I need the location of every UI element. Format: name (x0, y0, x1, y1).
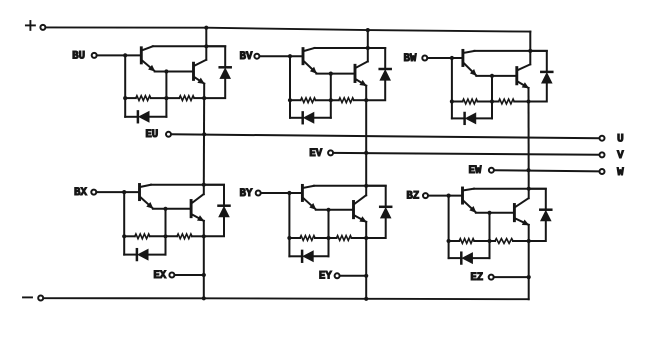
wire collector bus of cell W (474, 50, 546, 52)
junction node base BV (288, 54, 292, 58)
diode D2 freewheel (cell Y) bottom lead (366, 218, 386, 238)
wire emitter sense lead EZ (494, 276, 529, 278)
terminal circle EY (335, 273, 340, 278)
wire emitter-base branch vertical (cell X) (165, 209, 167, 255)
svg-text:BZ: BZ (406, 191, 419, 203)
diode D2 freewheel (cell U) cathode bar (220, 66, 231, 69)
wire base branch vertical (cell W) (451, 58, 453, 118)
wire collector bus of cell U (153, 45, 225, 47)
diode D1 reverse base-emitter (cell X) cathode bar (136, 249, 139, 260)
wire phase output line V (333, 153, 599, 155)
wire resistor row right lead (cell X) (192, 235, 204, 237)
junction node emitter sense (cell V) (364, 151, 368, 155)
transistor Q2 output (cell V) base bar (354, 65, 357, 81)
junction node collector (cell U) (204, 44, 208, 48)
junction node base BW (450, 56, 454, 60)
transistor Q1 driver (cell Z) base bar (461, 188, 464, 203)
transistor Q2 output (cell Z) emitter (515, 219, 528, 225)
wire base branch vertical (cell Y) (288, 193, 290, 256)
terminal circle EV (328, 150, 333, 155)
wire positive collector rail (P bus) (46, 27, 530, 31)
junction node P rail (cell V) (366, 28, 370, 32)
diode D1 reverse base-emitter (cell Z) lead left (449, 257, 462, 259)
wire Darlington emitter-base link (cell X) (153, 208, 190, 210)
junction node resistor row left (cell X) (122, 234, 126, 238)
wire emitter vertical to N rail (cell Y) (365, 222, 367, 299)
wire emitter sense lead EY (340, 275, 367, 277)
diode D1 reverse base-emitter (cell V) cathode bar (301, 112, 304, 123)
wire base lead BV (260, 55, 303, 57)
terminal circle EZ (489, 275, 494, 280)
junction node resistor row middle (cell W) (490, 99, 494, 103)
wire base lead BU (97, 54, 141, 56)
svg-text:U: U (617, 134, 624, 146)
junction node collector (cell Z) (527, 187, 531, 191)
terminal circle EX (169, 273, 174, 278)
transistor Q2 output (cell V) emitter (356, 79, 366, 85)
svg-text:EU: EU (145, 129, 158, 141)
diode D1 reverse base-emitter (cell V) anode triangle (303, 112, 314, 123)
wire resistor row right lead (cell V) (354, 99, 366, 101)
wire base branch vertical (cell X) (123, 192, 125, 255)
transistor Q1 driver (cell V) collector (304, 48, 315, 51)
wire collector vertical stub (cell X) (203, 185, 205, 195)
junction node collector (cell X) (202, 183, 206, 187)
transistor Q2 output (cell Y) emitter (355, 216, 367, 222)
terminal circle EW (489, 168, 494, 173)
svg-text:EW: EW (469, 165, 482, 177)
junction node base BY (287, 191, 291, 195)
wire Darlington emitter-base link (cell Y) (316, 209, 353, 211)
terminal circle BW (422, 56, 427, 61)
junction node emitter-base (cell Z) (487, 211, 491, 215)
diode D2 freewheel (cell Z) cathode bar (540, 208, 551, 211)
svg-text:EV: EV (309, 148, 322, 160)
junction node emitter-base (cell V) (329, 72, 333, 76)
junction node emitter sense (cell Y) (364, 274, 368, 278)
junction node resistor row middle (cell Y) (326, 236, 330, 240)
transistor Q2 output (cell X) base bar (190, 201, 193, 217)
transistor Q1 driver (cell Z) collector (464, 189, 475, 191)
junction node N rail (cell Y) (364, 297, 368, 301)
terminal circle BV (254, 54, 259, 59)
wire resistor row right lead (cell U) (194, 97, 204, 99)
resistor R1 base-emitter (cell X) (135, 234, 150, 239)
terminal circle V (600, 152, 605, 157)
wire Darlington emitter-base link (cell U) (155, 71, 193, 73)
svg-text:BU: BU (72, 50, 85, 62)
junction node collector (cell W) (528, 49, 532, 53)
diode D1 reverse base-emitter (cell Y) cathode bar (301, 251, 304, 262)
transistor Q1 driver (cell U) base bar (140, 48, 143, 63)
diode D1 reverse base-emitter (cell W) anode triangle (465, 113, 476, 124)
resistor R1 base-emitter (cell V) lead left (290, 99, 301, 101)
diode D2 freewheel (cell X) anode triangle (219, 206, 230, 217)
P terminal (+) circle (40, 25, 45, 30)
junction node emitter-base (cell U) (164, 69, 168, 73)
svg-text:EX: EX (153, 270, 166, 282)
diode D1 reverse base-emitter (cell U) lead right (149, 116, 166, 118)
wire phase output line W (494, 170, 599, 171)
transistor Q2 output (cell X) emitter (192, 215, 204, 221)
wire collector bus of cell X (151, 184, 224, 186)
resistor R1 base-emitter (cell Z) (459, 239, 474, 244)
svg-text:BY: BY (240, 188, 253, 200)
wire Darlington emitter-base link (cell W) (476, 75, 516, 77)
resistor R1 base-emitter (cell X) lead left (124, 235, 135, 237)
resistor R1 base-emitter (cell U) (136, 96, 151, 101)
diode D1 reverse base-emitter (cell W) cathode bar (463, 113, 466, 124)
N terminal (-) circle (38, 296, 43, 301)
wire phase node vertical (cell W emitter to cell Z collector) (528, 88, 530, 189)
wire emitter-base branch vertical (cell Y) (328, 210, 330, 256)
wire resistor row right lead (cell W) (514, 101, 528, 103)
wire phase output line U (171, 134, 599, 138)
wire emitter vertical to N rail (cell Z) (528, 225, 530, 299)
wire base lead BW (427, 57, 462, 59)
transistor Q1 driver (cell W) collector (464, 51, 475, 53)
resistor R1 base-emitter (cell Z) lead left (449, 240, 460, 242)
transistor Q2 output (cell U) base bar (192, 63, 195, 79)
junction node resistor row middle (cell U) (164, 96, 168, 100)
wire collector vertical stub (cell Z) (528, 189, 530, 199)
resistor R2 base-emitter (cell W) (499, 99, 515, 104)
wire base branch vertical (cell U) (124, 55, 126, 116)
diode D2 freewheel (cell U) bottom lead (204, 79, 225, 99)
diode D1 reverse base-emitter (cell Z) anode triangle (462, 253, 473, 264)
junction node emitter sense (cell Z) (527, 275, 531, 279)
transistor Q2 output (cell V) collector (356, 62, 368, 68)
junction node emitter (cell W) (526, 99, 530, 103)
wire collector vertical from P rail (cell W) (529, 32, 531, 65)
resistor R2 base-emitter (cell Y) (337, 236, 352, 241)
diode D1 reverse base-emitter (cell U) lead left (125, 116, 138, 118)
resistor R1 base-emitter (cell Y) lead left (289, 237, 300, 239)
diode D2 freewheel (cell Y) top lead (366, 186, 386, 207)
transistor Q2 output (cell U) collector (195, 60, 207, 66)
diode D2 freewheel (cell X) top lead (204, 185, 224, 206)
wire Darlington emitter-base link (cell V) (316, 73, 354, 75)
diode D2 freewheel (cell V) anode triangle (380, 70, 391, 81)
junction node emitter (cell X) (202, 234, 206, 238)
junction node resistor row left (cell U) (123, 96, 127, 100)
diode D2 freewheel (cell Z) anode triangle (541, 210, 552, 221)
transistor Q1 driver (cell W) emitter (464, 63, 476, 75)
diode D1 reverse base-emitter (cell W) lead left (452, 117, 465, 119)
wire collector vertical from P rail (cell V) (367, 30, 369, 61)
wire resistor row middle (cell V) (316, 99, 339, 101)
transistor Q2 output (cell U) emitter (195, 77, 205, 83)
wire emitter sense lead EX (175, 274, 204, 276)
junction node emitter (cell U) (202, 96, 206, 100)
P terminal (+) label (26, 21, 35, 30)
transistor Q1 driver (cell W) base bar (461, 50, 464, 65)
wire emitter-base branch vertical (cell W) (491, 76, 493, 119)
wire resistor row middle (cell Z) (474, 240, 495, 242)
diode D2 freewheel (cell V) top lead (368, 48, 385, 69)
transistor Q2 output (cell W) base bar (515, 68, 518, 84)
terminal circle BX (91, 190, 96, 195)
diode D1 reverse base-emitter (cell X) lead left (124, 254, 137, 256)
diode D2 freewheel (cell V) bottom lead (366, 80, 385, 100)
junction node emitter sense (cell X) (202, 273, 206, 277)
junction node resistor row left (cell W) (450, 99, 454, 103)
junction node base BZ (447, 194, 451, 198)
diode D2 freewheel (cell U) top lead (206, 46, 225, 67)
resistor R2 base-emitter (cell V) (339, 98, 354, 103)
diode D1 reverse base-emitter (cell X) lead right (148, 254, 165, 256)
wire base lead BX (96, 191, 138, 193)
svg-text:V: V (617, 150, 624, 162)
transistor Q1 driver (cell Y) collector (303, 186, 314, 188)
transistor Q1 driver (cell Y) base bar (301, 185, 304, 200)
junction node collector (cell Y) (364, 184, 368, 188)
wire base lead BY (261, 192, 302, 194)
junction node P rail (cell U) (204, 26, 208, 30)
wire resistor row right lead (cell Y) (352, 237, 367, 239)
diode D1 reverse base-emitter (cell V) lead left (290, 117, 303, 119)
transistor Q2 output (cell Y) collector (355, 195, 367, 204)
wire emitter vertical to N rail (cell X) (203, 221, 205, 298)
wire negative emitter rail (N bus) (44, 298, 529, 299)
junction node emitter-base (cell W) (490, 74, 494, 78)
transistor Q1 driver (cell Y) emitter (303, 198, 315, 209)
junction node emitter-base (cell Y) (326, 208, 330, 212)
junction node resistor row middle (cell Z) (487, 239, 491, 243)
svg-text:W: W (617, 167, 624, 179)
resistor R2 base-emitter (cell X) (177, 234, 192, 239)
diode D1 reverse base-emitter (cell Z) lead right (473, 257, 490, 259)
diode D1 reverse base-emitter (cell X) anode triangle (138, 249, 149, 260)
transistor Q1 driver (cell U) emitter (142, 61, 154, 72)
diode D2 freewheel (cell X) bottom lead (204, 217, 224, 236)
transistor Q2 output (cell Y) base bar (352, 202, 355, 218)
resistor R1 base-emitter (cell W) (463, 99, 478, 104)
wire emitter-base branch vertical (cell Z) (489, 213, 491, 258)
transistor Q2 output (cell W) emitter (518, 82, 529, 88)
svg-text:EY: EY (319, 271, 332, 283)
wire base branch vertical (cell Z) (448, 196, 450, 259)
resistor R1 base-emitter (cell V) (301, 98, 316, 103)
junction node emitter (cell Y) (364, 236, 368, 240)
transistor Q1 driver (cell X) collector (141, 185, 152, 187)
diode D2 freewheel (cell Y) anode triangle (380, 208, 391, 219)
wire phase node vertical (cell U emitter to cell X collector) (203, 84, 205, 185)
terminal circle BZ (423, 193, 428, 198)
diode D2 freewheel (cell W) anode triangle (542, 73, 553, 84)
svg-text:BW: BW (404, 53, 417, 65)
terminal circle BU (92, 53, 97, 58)
diode D1 reverse base-emitter (cell W) lead right (476, 117, 492, 119)
transistor Q1 driver (cell V) base bar (302, 49, 305, 64)
junction node resistor row middle (cell X) (163, 234, 167, 238)
transistor Q1 driver (cell Z) emitter (464, 201, 476, 213)
wire resistor row middle (cell Y) (315, 237, 337, 239)
terminal circle W (600, 169, 605, 174)
junction node resistor row left (cell Z) (447, 239, 451, 243)
resistor R1 base-emitter (cell W) lead left (452, 101, 463, 103)
transistor Q2 output (cell X) collector (192, 194, 204, 203)
diode D1 reverse base-emitter (cell V) lead right (314, 117, 331, 119)
junction node collector (cell V) (366, 46, 370, 50)
diode D2 freewheel (cell U) anode triangle (220, 68, 231, 79)
wire collector vertical from P rail (cell U) (205, 28, 207, 60)
junction node N rail (cell X) (202, 296, 206, 300)
wire base lead BZ (428, 195, 461, 197)
wire collector bus of cell Z (474, 188, 546, 190)
diode D1 reverse base-emitter (cell Y) lead left (289, 255, 302, 257)
terminal circle EU (166, 132, 171, 137)
diode D2 freewheel (cell W) bottom lead (529, 83, 547, 101)
terminal circle U (600, 136, 605, 141)
diode D2 freewheel (cell W) cathode bar (541, 71, 552, 74)
transistor Q1 driver (cell X) base bar (138, 185, 141, 200)
diode D2 freewheel (cell Z) top lead (529, 189, 546, 210)
wire emitter-base branch vertical (cell U) (165, 72, 167, 117)
junction node base BX (122, 190, 126, 194)
N terminal (-) label (23, 296, 32, 298)
junction node resistor row middle (cell V) (329, 98, 333, 102)
wire collector bus of cell Y (314, 185, 386, 187)
junction node resistor row left (cell Y) (287, 236, 291, 240)
resistor R2 base-emitter (cell Z) (495, 239, 513, 244)
transistor Q1 driver (cell X) emitter (141, 197, 153, 208)
terminal circle BY (256, 191, 261, 196)
svg-text:BX: BX (74, 187, 87, 199)
wire collector bus of cell V (315, 47, 386, 49)
diode D1 reverse base-emitter (cell Z) cathode bar (460, 253, 463, 264)
transistor Q2 output (cell Z) base bar (513, 205, 516, 221)
wire resistor row middle (cell U) (151, 97, 179, 99)
transistor Q2 output (cell Z) collector (515, 198, 528, 207)
resistor R1 base-emitter (cell Y) (300, 236, 315, 241)
junction node emitter (cell V) (364, 98, 368, 102)
wire collector vertical stub (cell Y) (365, 186, 367, 196)
junction node emitter-base (cell X) (163, 207, 167, 211)
wire base branch vertical (cell V) (289, 56, 291, 118)
svg-text:EZ: EZ (470, 272, 483, 284)
wire phase node vertical (cell V emitter to cell Y collector) (365, 86, 367, 186)
wire Darlington emitter-base link (cell Z) (476, 212, 514, 214)
diode D1 reverse base-emitter (cell Y) lead right (313, 255, 328, 257)
transistor Q2 output (cell W) collector (518, 64, 530, 70)
wire emitter-base branch vertical (cell V) (330, 74, 332, 118)
junction node emitter sense (cell W) (526, 168, 530, 172)
junction node base BU (123, 53, 127, 57)
resistor R1 base-emitter (cell U) lead left (125, 97, 136, 99)
diode D1 reverse base-emitter (cell U) anode triangle (139, 111, 150, 122)
diode D1 reverse base-emitter (cell U) cathode bar (137, 111, 140, 122)
wire resistor row middle (cell W) (478, 101, 499, 103)
transistor Q1 driver (cell U) collector (142, 46, 153, 50)
svg-text:BV: BV (240, 51, 253, 63)
diode D2 freewheel (cell X) cathode bar (219, 204, 230, 207)
junction node resistor row left (cell V) (288, 98, 292, 102)
diode D1 reverse base-emitter (cell Y) anode triangle (303, 251, 314, 262)
diode D2 freewheel (cell Y) cathode bar (380, 206, 391, 209)
junction node emitter sense (cell U) (202, 132, 206, 136)
wire resistor row middle (cell X) (150, 235, 177, 237)
transistor Q1 driver (cell V) emitter (304, 61, 316, 73)
diode D2 freewheel (cell Z) bottom lead (529, 221, 546, 241)
diode D2 freewheel (cell V) cathode bar (380, 68, 391, 71)
resistor R2 base-emitter (cell U) (179, 96, 194, 101)
junction node emitter (cell Z) (527, 239, 531, 243)
wire resistor row right lead (cell Z) (513, 240, 529, 242)
diode D2 freewheel (cell W) top lead (530, 51, 547, 72)
